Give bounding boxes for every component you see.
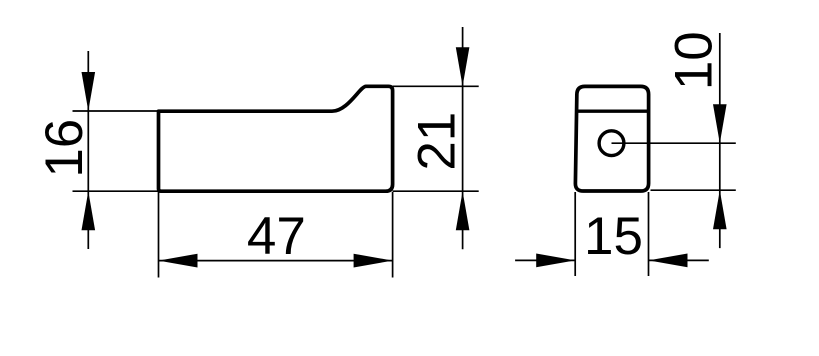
part outline: front view of hook [575, 86, 648, 191]
dimension 10: extension line bottom [651, 189, 736, 191]
dimension 47: extension line right [392, 192, 394, 278]
dimension 16: extension line bottom [73, 190, 159, 192]
dimension 21: dimension line [462, 27, 464, 249]
part outline: side view of hook [159, 86, 393, 191]
dimension 10: dimension line [719, 33, 721, 248]
dimension 21: extension line top [393, 85, 479, 87]
svg-text:16: 16 [35, 119, 94, 178]
dimension 10: arrow down [713, 104, 727, 143]
dimension 15: dimension line right tail [649, 259, 709, 261]
dimension 47: dimension line [159, 260, 393, 262]
svg-text:21: 21 [408, 112, 467, 171]
dimension 47: arrow right [354, 254, 393, 268]
dimension 16: arrow up [82, 191, 96, 230]
svg-text:47: 47 [247, 207, 306, 266]
dimension 47: arrow left [159, 254, 198, 268]
dimension 10: arrow up [713, 190, 727, 229]
dimension 21: arrow up [456, 191, 470, 230]
dimension 15: arrow pointing right [536, 254, 575, 268]
dimension 15: extension line right [648, 192, 650, 276]
svg-text:10: 10 [665, 31, 724, 90]
dimension 16: extension line top [73, 110, 159, 112]
dimension 15: extension line left [574, 192, 576, 276]
hole circle [599, 131, 624, 156]
dimension 47: extension line left [158, 192, 160, 278]
dimension 21: extension line bottom [393, 190, 479, 192]
dimension 16: arrow down [82, 72, 96, 111]
dimension 10: extension line from hole centre [612, 142, 736, 144]
dimension 16: dimension line [87, 51, 89, 249]
dimension 21: arrow down [456, 47, 470, 86]
dimension 15: dimension line left tail [515, 259, 575, 261]
svg-text:15: 15 [584, 207, 643, 266]
dimension 15: arrow pointing left [649, 254, 688, 268]
step edge line on front view [577, 109, 649, 112]
